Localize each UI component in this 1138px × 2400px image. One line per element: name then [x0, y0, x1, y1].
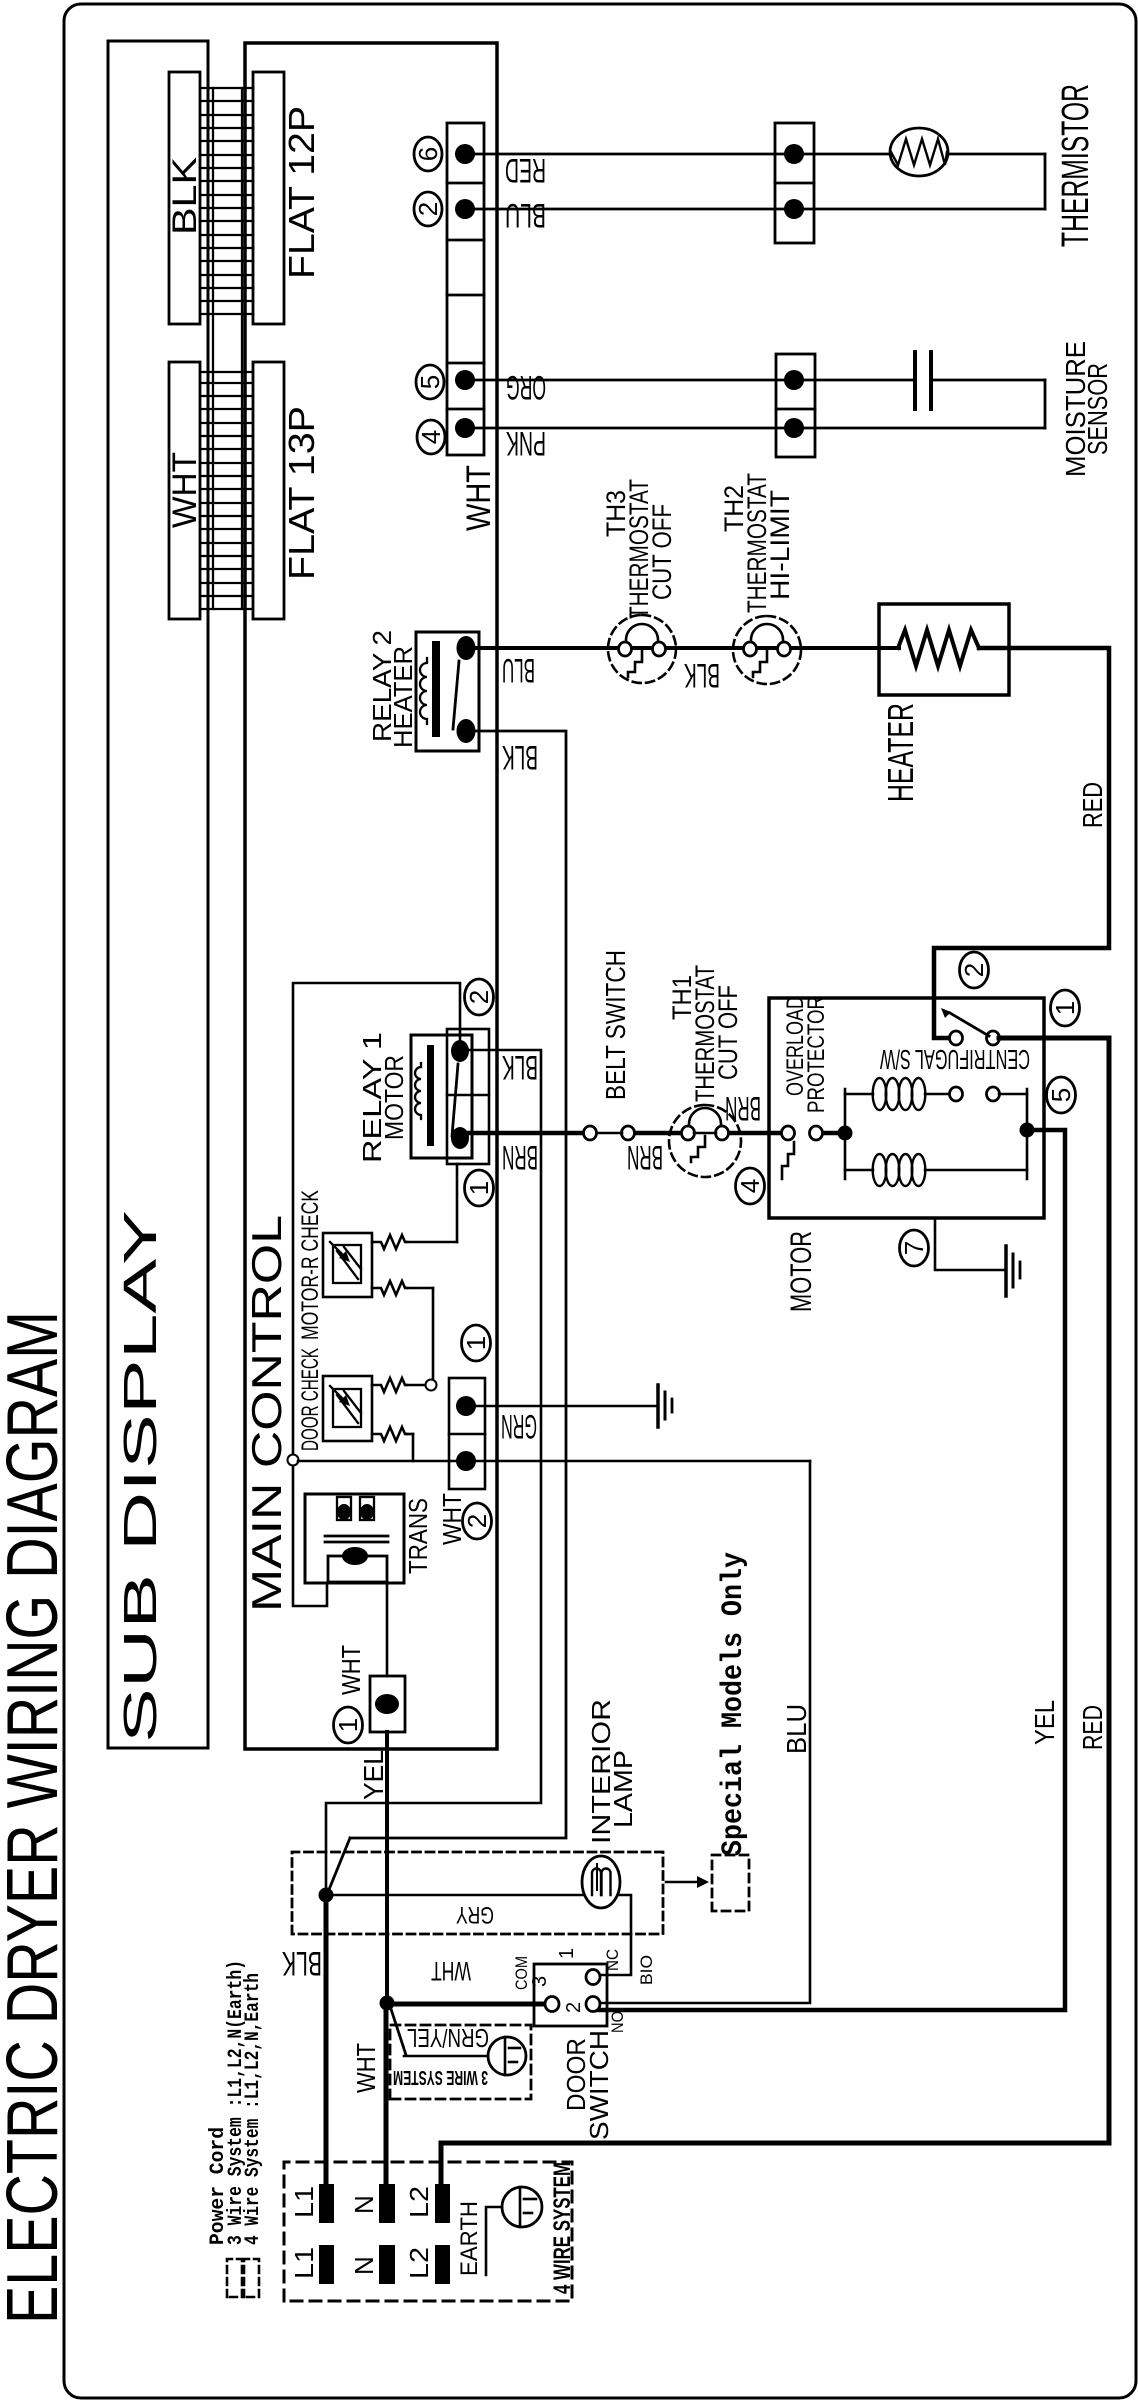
circled 2 (centrifugal) — [959, 952, 989, 988]
pin dot WHT — [456, 1451, 476, 1471]
wire WHT to N pin — [384, 2003, 389, 2184]
ground (GRN) — [658, 1385, 672, 1427]
circled 1 (motor out) — [1050, 990, 1080, 1026]
svg-text:HEATER: HEATER — [388, 646, 418, 748]
centrifugal switch contacts — [950, 1031, 963, 1045]
terminal WHT (circled 1) — [370, 1676, 405, 1732]
arrow (special models) — [666, 1881, 699, 1884]
svg-text:5: 5 — [1046, 1088, 1076, 1102]
junction dot (WHT node) — [380, 1996, 395, 2011]
circled 4 (strip) — [416, 420, 446, 454]
connector strip GRN/WHT — [449, 1378, 485, 1489]
svg-text:N: N — [349, 2256, 379, 2275]
svg-text:WHT: WHT — [336, 1645, 366, 1695]
svg-text:MOTOR: MOTOR — [379, 1055, 409, 1140]
wire PNK (moisture) — [475, 427, 1045, 430]
svg-text:SWITCH: SWITCH — [584, 2030, 614, 2140]
svg-text:BIO: BIO — [637, 1955, 656, 1985]
wire BLU door switch NO — [600, 1461, 810, 2003]
ground (motor) — [1006, 1246, 1020, 1296]
pin L2 (row 2) — [435, 2245, 450, 2284]
wire RED (thermistor) — [475, 153, 891, 156]
connector (moisture 2P) — [776, 354, 815, 457]
ribbon cable rails — [212, 88, 214, 609]
earth circle (3 wire system) — [488, 2037, 526, 2075]
svg-text:5: 5 — [415, 375, 445, 389]
svg-text:N: N — [349, 2195, 379, 2214]
relay U1 RELAY 1 MOTOR — [411, 1035, 472, 1158]
svg-text:2: 2 — [413, 202, 443, 216]
power cord dashed box — [284, 2162, 572, 2301]
svg-text:TRANS: TRANS — [403, 1498, 433, 1574]
pin L1 (row 2) — [319, 2245, 334, 2284]
ribbon rungs FLAT 12P — [200, 88, 253, 314]
svg-text:YEL: YEL — [358, 1750, 389, 1800]
svg-text:4 WIRE SYSTEM: 4 WIRE SYSTEM — [549, 2162, 576, 2294]
relay1 terminal strip — [447, 1029, 489, 1164]
thermostat TH1 — [669, 1105, 741, 1177]
svg-text:BLK: BLK — [502, 1048, 538, 1086]
svg-text:CUT OFF: CUT OFF — [713, 985, 743, 1080]
svg-text:WHT: WHT — [166, 452, 204, 528]
wire ORG (moisture) — [475, 379, 913, 382]
wire WHT main — [298, 1460, 810, 1463]
svg-text:HI-LIMIT: HI-LIMIT — [765, 490, 795, 600]
motor winding rail (right) — [1026, 1089, 1029, 1179]
svg-text:GRN: GRN — [501, 1407, 537, 1445]
svg-text:PNK: PNK — [506, 424, 546, 462]
door switch pin 1 NC — [586, 1970, 600, 1985]
MAIN CONTROL box — [245, 43, 497, 1749]
svg-text:1: 1 — [464, 1181, 494, 1195]
motor box — [769, 998, 1044, 1218]
svg-text:2: 2 — [959, 963, 989, 977]
circled 7 (motor ground) — [899, 1230, 929, 1266]
capacitor (moisture sensor electrodes) — [913, 352, 917, 409]
svg-text:L1: L1 — [289, 2186, 319, 2218]
ring terminal (WHT) — [288, 1455, 299, 1466]
wire BLU heater feed — [475, 646, 899, 650]
wire BLU (thermistor) — [475, 208, 1045, 211]
motor S/W contacts — [950, 1087, 963, 1101]
resistor (motor-r check 1) — [372, 1235, 407, 1249]
svg-text:RED: RED — [1077, 1705, 1108, 1750]
svg-text:BLK: BLK — [166, 157, 204, 235]
heater box — [879, 604, 1009, 695]
door switch pin 3 COM — [545, 1997, 559, 2012]
junction dot (motor in) — [838, 1126, 853, 1141]
svg-text:GRY: GRY — [456, 1901, 494, 1928]
motor winding rail (left) — [844, 1089, 847, 1179]
dashed square (4 wire legend) — [244, 2259, 259, 2297]
svg-text:3 WIRE SYSTEM: 3 WIRE SYSTEM — [393, 2066, 488, 2088]
svg-text:L1: L1 — [289, 2247, 319, 2279]
dashed box GRN/YEL 3 wire — [390, 2025, 531, 2099]
svg-text:WHT: WHT — [351, 2043, 381, 2093]
junction dot (BLK node) — [319, 1888, 334, 1903]
wire WHT to door switch COM — [387, 2002, 546, 2007]
wire BLK branch — [325, 1803, 328, 1895]
circled 5 (motor) — [1046, 1077, 1076, 1113]
wire RED to power cord — [441, 1038, 1109, 2182]
svg-text:GRN/YEL: GRN/YEL — [407, 2023, 489, 2053]
heater element zigzag — [898, 630, 979, 666]
wire lamp to NC pin — [600, 1895, 631, 1975]
wire motor-r check to relay1 — [456, 1164, 459, 1242]
dashed square (special models) — [712, 1855, 749, 1911]
wire BRN motor feed — [467, 1131, 845, 1136]
ribbon rungs FLAT 13P — [200, 372, 253, 609]
door switch box — [534, 1964, 607, 2026]
svg-text:L2: L2 — [404, 2186, 434, 2218]
optocoupler MOTOR-R CHECK — [323, 1233, 372, 1297]
svg-text:2: 2 — [464, 990, 494, 1004]
SUB DISPLAY box — [108, 41, 208, 1748]
svg-text:WHT: WHT — [431, 1956, 471, 1986]
svg-text:PROTECTOR: PROTECTOR — [803, 996, 830, 1113]
connector FLAT 13P body (SUB side) — [169, 362, 200, 619]
svg-text:BELT SWITCH: BELT SWITCH — [600, 950, 631, 1100]
svg-text:6: 6 — [413, 147, 443, 161]
svg-text:BLK: BLK — [684, 656, 720, 694]
svg-text:MOTOR-R CHECK: MOTOR-R CHECK — [297, 1190, 324, 1340]
svg-text:ELECTRIC DRYER WIRING DIAGRAM: ELECTRIC DRYER WIRING DIAGRAM — [0, 1311, 73, 2324]
wire WHT to transformer — [293, 1466, 327, 1606]
wire earth (4 wire) — [486, 2207, 502, 2275]
svg-text:1: 1 — [1050, 1001, 1080, 1015]
svg-text:DOOR CHECK: DOOR CHECK — [297, 1348, 324, 1451]
wire thermistor bottom U — [1044, 154, 1047, 209]
junction dot (motor out) — [1020, 1123, 1035, 1138]
wire RED from heater to centrifugal switch — [934, 648, 1109, 1038]
svg-text:ORG: ORG — [506, 368, 546, 406]
resistor (motor-r check 2) — [372, 1281, 407, 1295]
svg-text:LAMP: LAMP — [608, 1750, 638, 1828]
svg-text:4 Wire System :L1,L2,N,Earth: 4 Wire System :L1,L2,N,Earth — [242, 1973, 265, 2245]
circled 2 (GRN strip) — [462, 1503, 492, 1539]
svg-text:1: 1 — [461, 1336, 491, 1350]
motor main winding branch — [845, 1093, 873, 1096]
svg-text:RED: RED — [505, 151, 546, 189]
svg-text:2: 2 — [563, 2002, 585, 2013]
svg-text:BLK: BLK — [502, 738, 538, 776]
wire door check 2 to WHT — [412, 1434, 415, 1461]
overload protector contacts — [782, 1126, 795, 1140]
circled 4 (TH1) — [735, 1168, 765, 1204]
door switch pin 2 NO — [586, 1997, 600, 2012]
interior lamp bulb — [582, 1856, 620, 1908]
svg-text:7: 7 — [899, 1241, 929, 1255]
connector (thermistor 2P) — [775, 123, 814, 243]
optocoupler DOOR CHECK — [323, 1376, 372, 1441]
wire BLK from relay2 to lamp switch — [350, 731, 566, 1838]
svg-text:BLK: BLK — [282, 1944, 322, 1982]
wire GRY to interior lamp — [330, 1894, 584, 1897]
svg-text:CENTRIFUGAL S/W: CENTRIFUGAL S/W — [880, 1044, 1030, 1075]
svg-text:CUT OFF: CUT OFF — [647, 504, 677, 600]
svg-text:2: 2 — [462, 1514, 492, 1528]
svg-text:BRN: BRN — [627, 1138, 663, 1176]
relay U2 RELAY 2 HEATER — [416, 632, 479, 751]
svg-text:NO: NO — [608, 2011, 627, 2033]
pin dot 2 — [455, 199, 475, 219]
wire GRN to ground — [476, 1405, 656, 1408]
svg-text:EARTH: EARTH — [456, 2201, 483, 2276]
svg-text:BRN: BRN — [502, 1138, 538, 1176]
interior lamp dashed box — [292, 1852, 663, 1934]
pin dot GRN — [456, 1396, 476, 1416]
connector FLAT 12P body (SUB side) — [169, 72, 200, 324]
pin N (row 1) — [379, 2184, 395, 2223]
earth circle (4 wire system) — [502, 2187, 542, 2227]
circled 1 (relay1) — [464, 1170, 494, 1206]
connector FLAT 12P body (MAIN side) — [253, 72, 284, 324]
wire YEL terminal to junction — [385, 1732, 389, 2003]
svg-text:Special Models Only: Special Models Only — [717, 1552, 751, 1856]
svg-text:RED: RED — [1077, 782, 1108, 828]
svg-text:BRN: BRN — [725, 1089, 761, 1127]
pin dot 6 — [455, 144, 475, 164]
svg-text:YEL: YEL — [1029, 1700, 1060, 1745]
svg-text:1: 1 — [333, 1718, 363, 1732]
motor ground wire — [935, 1218, 1004, 1270]
pin dot 4 — [455, 418, 475, 438]
svg-text:THERMISTOR: THERMISTOR — [1055, 84, 1097, 247]
svg-text:4: 4 — [416, 430, 446, 444]
wire BLK to L1 pin — [324, 1895, 329, 2184]
svg-text:L2: L2 — [404, 2247, 434, 2279]
overload protector heater step — [782, 1142, 794, 1179]
connector strip WHT (main control bottom right) — [447, 123, 484, 455]
svg-text:BLU: BLU — [781, 1704, 812, 1754]
wire BLK from relay1 contact to lamp switch — [328, 1050, 541, 1803]
svg-text:FLAT 12P: FLAT 12P — [281, 106, 322, 279]
wire to earth (3 wire) — [390, 2006, 406, 2055]
svg-text:MAIN CONTROL: MAIN CONTROL — [243, 1215, 290, 1612]
wire relay1 coil loop to WHT ring — [293, 983, 460, 1454]
pin L1 (row 1) — [319, 2184, 334, 2223]
thermostat TH2 — [733, 616, 801, 684]
lamp switch blade — [328, 1838, 350, 1892]
svg-text:HEATER: HEATER — [880, 703, 921, 802]
resistor (door check 2) — [372, 1427, 407, 1441]
circled 1 (WHT terminal) — [333, 1707, 363, 1743]
pin dot 5 — [455, 370, 475, 390]
circled 6 — [413, 137, 443, 171]
ring terminal (door check) — [426, 1380, 437, 1391]
svg-text:SENSOR: SENSOR — [1082, 363, 1113, 455]
circled 5 (strip) — [415, 365, 445, 399]
thermostat TH3 — [608, 615, 676, 683]
svg-text:MOTOR: MOTOR — [785, 1231, 818, 1312]
svg-text:BLU: BLU — [505, 196, 546, 234]
circled 2 (relay1) — [464, 979, 494, 1015]
svg-text:4: 4 — [735, 1179, 765, 1193]
thermistor — [890, 128, 948, 176]
wire motor-r check to door check node — [432, 1288, 435, 1385]
svg-text:FLAT 13P: FLAT 13P — [281, 406, 322, 580]
pin N (row 2) — [379, 2245, 395, 2284]
resistor (door check 1) — [372, 1378, 407, 1392]
transformer TRANS — [305, 1494, 404, 1583]
wire moisture bottom U — [1044, 380, 1047, 428]
wire YEL from motor to door switch — [598, 1130, 1065, 2010]
dashed square (3 wire legend) — [227, 2259, 242, 2297]
svg-text:SUB DISPLAY: SUB DISPLAY — [114, 1210, 166, 1743]
svg-text:WHT: WHT — [460, 465, 498, 531]
motor start winding branch — [845, 1169, 873, 1172]
connector FLAT 13P body (MAIN side) — [253, 362, 284, 619]
circled 2 (strip) — [413, 192, 443, 226]
centrifugal switch arm — [950, 1013, 989, 1036]
svg-text:1: 1 — [556, 1948, 578, 1959]
wire TRANS to WHT terminal — [386, 1582, 389, 1676]
svg-text:NC: NC — [603, 1949, 622, 1971]
svg-text:BLU: BLU — [502, 651, 535, 689]
belt switch contacts — [584, 1126, 597, 1140]
svg-text:3: 3 — [529, 1976, 551, 1987]
circled 1 (GRN strip) — [461, 1325, 491, 1361]
pin L2 (row 1) — [435, 2184, 450, 2223]
